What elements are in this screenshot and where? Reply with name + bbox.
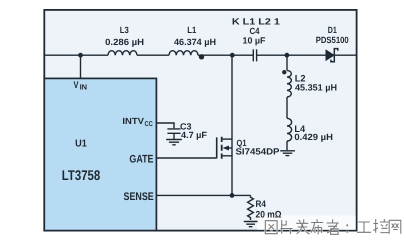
svg-text:IN: IN [80, 82, 88, 91]
svg-text:45.351 µH: 45.351 µH [295, 83, 337, 93]
svg-text:V: V [74, 80, 79, 91]
svg-text:0.286 µH: 0.286 µH [105, 37, 144, 47]
svg-text:0.429 µH: 0.429 µH [294, 132, 333, 142]
svg-text:PDS5100: PDS5100 [316, 35, 349, 45]
svg-text:U1: U1 [75, 139, 87, 150]
svg-text:D1: D1 [328, 25, 337, 35]
svg-text:10 µF: 10 µF [243, 36, 266, 46]
svg-text:C4: C4 [250, 26, 260, 36]
svg-text:SENSE: SENSE [124, 191, 154, 203]
svg-text:SI7454DP: SI7454DP [236, 146, 280, 156]
svg-text:46.374 µH: 46.374 µH [174, 37, 216, 47]
svg-text:4.7 µF: 4.7 µF [181, 130, 207, 140]
svg-text:GATE: GATE [129, 153, 153, 165]
svg-text:K L1 L2 1: K L1 L2 1 [232, 16, 280, 26]
svg-text:20 mΩ: 20 mΩ [256, 209, 282, 220]
svg-text:L1: L1 [187, 25, 196, 35]
svg-text:CC: CC [145, 121, 153, 128]
svg-text:LT3758: LT3758 [62, 167, 101, 183]
svg-text:L3: L3 [120, 25, 129, 35]
svg-text:INTV: INTV [122, 116, 144, 126]
